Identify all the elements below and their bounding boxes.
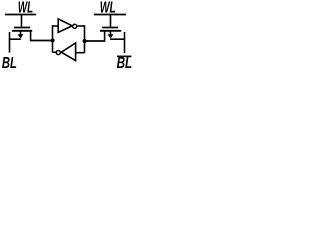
wire gate lead M2 (110, 15, 112, 27)
junction dot node Q (51, 38, 55, 42)
wire inverter U1 input (53, 25, 59, 27)
transistor M1 channel bar (12, 30, 32, 32)
label BLbar overline (117, 55, 131, 57)
transistor M2 gate bar (102, 27, 118, 29)
wire BL leg (left bit line) (9, 32, 11, 53)
wire M1 source to BL leg (10, 38, 21, 40)
inverter U1 output bubble (73, 24, 77, 28)
transistor M2 source arrow (108, 31, 114, 38)
wire gate lead M1 (21, 15, 23, 27)
wire M1 drain leg (30, 32, 32, 40)
node Q vertical wire (52, 25, 54, 52)
svg-text:BL: BL (117, 55, 133, 70)
transistor M2 channel bar (100, 30, 121, 32)
inverter U2 output bubble (56, 50, 60, 54)
wire inverter U2 output (53, 51, 57, 53)
wire BLbar leg (right bit line) (124, 32, 126, 53)
svg-text:BL: BL (2, 55, 17, 70)
label WL (right) (100, 0, 116, 17)
word line WL left wire (5, 14, 36, 16)
word line WL right wire (94, 14, 126, 16)
label BLbar text (117, 55, 133, 72)
inverter U2 triangle (61, 43, 75, 61)
wire M2 source to BLbar leg (110, 38, 124, 40)
wire inverter U2 input (76, 52, 85, 54)
svg-text:WL: WL (18, 0, 33, 17)
transistor M1 gate bar (14, 27, 30, 29)
svg-text:WL: WL (100, 0, 116, 17)
wire M2 drain to node Qbar (85, 40, 106, 42)
node Qbar vertical wire (84, 25, 86, 53)
wire M2 drain leg (104, 32, 106, 41)
junction dot node Qbar (83, 39, 87, 43)
inverter U1 triangle (58, 19, 72, 33)
transistor M1 source arrow (18, 31, 24, 38)
label BL (left) (2, 55, 17, 72)
label WL (left) (18, 0, 33, 17)
wire inverter U1 output (77, 25, 84, 27)
wire M1 drain to node Q (30, 40, 53, 42)
